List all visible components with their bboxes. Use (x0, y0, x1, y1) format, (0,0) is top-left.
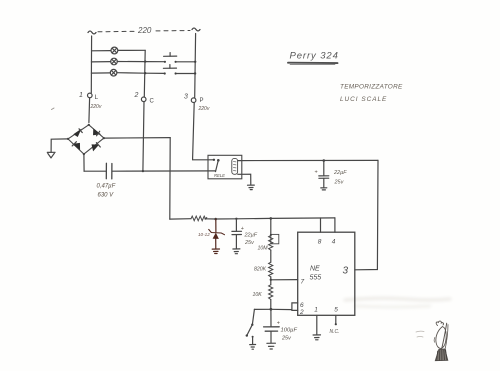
resistor R2 10M zigzag (269, 235, 273, 250)
lamp LP3 (110, 69, 117, 76)
wire middle rail (143, 50, 146, 96)
svg-text:+: + (277, 321, 280, 327)
bridge rectifier BR1 (67, 124, 105, 155)
wire C rail down (143, 102, 144, 171)
svg-text:P: P (200, 98, 204, 104)
junction dot cap 22uF right (323, 159, 326, 162)
svg-text:2: 2 (299, 309, 304, 316)
junction dot rail/divider (270, 217, 273, 220)
bracket pins 6-2 (292, 303, 298, 311)
svg-text:6: 6 (300, 302, 304, 309)
ground (pin1) (313, 334, 320, 336)
wire lamp row2 to button (145, 61, 164, 63)
wire P rail to relay (193, 103, 213, 160)
svg-text:0,47µF: 0,47µF (97, 184, 116, 190)
relay K1 box (208, 155, 242, 179)
svg-text:630 V: 630 V (98, 193, 115, 199)
wire dashed 220 line (98, 30, 136, 33)
wire right rail top (194, 34, 197, 98)
wire pin 1 to ground (316, 315, 318, 334)
svg-text:100µF: 100µF (281, 328, 298, 334)
capacitor C2 22uF lead (323, 161, 325, 176)
svg-text:2: 2 (134, 92, 139, 99)
wire cap to relay (112, 170, 215, 172)
svg-text:220v: 220v (198, 106, 210, 112)
trimmer rect (271, 234, 279, 243)
terminal 1 L (88, 93, 93, 98)
junction dot (194, 61, 196, 63)
terminal 3 P (191, 98, 196, 103)
junction dot (194, 72, 196, 74)
title underline (288, 62, 338, 64)
svg-text:22µF: 22µF (244, 233, 258, 239)
svg-text:10M: 10M (258, 246, 269, 252)
svg-text:+: + (315, 170, 318, 176)
svg-text:7: 7 (301, 279, 305, 286)
wire coil bottom to ground (238, 174, 251, 185)
svg-text:3: 3 (343, 266, 349, 277)
ground (C3) (233, 248, 240, 250)
faint pencil marks (416, 331, 424, 337)
wire drop pin8 (320, 218, 322, 232)
svg-text:3: 3 (184, 94, 188, 101)
capacitor C4 100uF (270, 309, 272, 326)
svg-text:RELE: RELE (214, 173, 225, 178)
lamp row 1 wires (92, 50, 111, 52)
IC U1 NE555 box (298, 232, 355, 315)
capacitor C3 22uF left (235, 219, 237, 231)
svg-text:220v: 220v (90, 104, 102, 110)
svg-text:8: 8 (318, 239, 322, 246)
svg-text:4: 4 (332, 239, 336, 246)
svg-text:TEMPORIZZATORE: TEMPORIZZATORE (340, 83, 403, 90)
diode D3 bottom-left (74, 144, 80, 149)
wire lamp row3 to button (145, 72, 163, 74)
svg-text:22µF: 22µF (333, 170, 347, 176)
ground (switch) (250, 344, 256, 346)
svg-text:25v: 25v (334, 180, 345, 186)
lamp LP2 (111, 58, 118, 65)
wire vertical supply drop (169, 138, 171, 220)
wire left rail top (90, 36, 92, 93)
diode D1 top-left (74, 130, 80, 136)
relay coil (232, 158, 238, 174)
ground (C2) (321, 187, 327, 189)
AC source tilde left (88, 31, 96, 34)
junction dot (144, 72, 146, 74)
wire bridge right to vertical (104, 137, 170, 140)
svg-text:5: 5 (334, 307, 338, 314)
doodle signature (434, 321, 448, 361)
svg-text:NE: NE (310, 266, 320, 273)
ground (relay) (248, 184, 255, 186)
divider rail: top segment (270, 218, 272, 235)
svg-text:555: 555 (310, 275, 322, 282)
wire button1 to right rail (177, 61, 195, 63)
resistor R4 10K zigzag (269, 285, 273, 300)
ground (zener) (212, 248, 219, 250)
svg-text:25v: 25v (244, 240, 255, 246)
relay contact dots (213, 159, 215, 161)
junction dot node C-rail (142, 170, 144, 172)
lamp row 2 wire (91, 61, 110, 63)
svg-text:1: 1 (314, 307, 318, 314)
junction dot zener (214, 218, 217, 221)
diode D4 bottom-right (92, 145, 98, 150)
wire drop pin4 (334, 218, 336, 232)
pushbutton S1 (164, 61, 166, 63)
junction dot (144, 60, 146, 62)
wire bottom junction left (254, 308, 271, 310)
ground (bridge minus) (47, 151, 55, 153)
resistor R3 820K zigzag (269, 262, 273, 277)
wire bridge bottom to cap (83, 154, 85, 171)
wire terminal L to bridge (88, 98, 91, 123)
svg-text:L: L (95, 94, 99, 101)
junction dot cap C3 (235, 218, 237, 220)
wire pin 5 stub (335, 315, 337, 323)
wire to pin 7 (271, 279, 298, 281)
svg-text:10-12: 10-12 (198, 232, 210, 237)
resistor R1 zigzag (191, 216, 207, 221)
wire bottom junction right to 6/2 bracket (271, 308, 292, 310)
capacitor C1 0.47uF (105, 163, 107, 178)
ground (C4) (267, 342, 276, 344)
wire bridge left to ground (51, 139, 68, 152)
wire button2 to right rail (177, 73, 195, 75)
svg-text:1: 1 (79, 92, 83, 99)
svg-text:25v: 25v (281, 336, 292, 342)
zener DZ1 (209, 219, 225, 254)
svg-text:C: C (150, 99, 155, 105)
svg-text:Perry 324: Perry 324 (290, 51, 339, 62)
wire pin3 out (355, 160, 378, 269)
svg-text:N.C.: N.C. (330, 329, 340, 335)
AC source tilde right (192, 28, 200, 31)
trigger switch S3 (253, 309, 255, 323)
svg-text:220: 220 (137, 26, 152, 35)
pushbutton S2 (164, 72, 166, 74)
relay lever (216, 160, 219, 171)
svg-text:10K: 10K (253, 292, 263, 298)
svg-text:+: + (241, 226, 244, 232)
terminal 2 C (141, 97, 146, 102)
svg-text:820K: 820K (254, 267, 267, 273)
svg-text:LUCI SCALE: LUCI SCALE (340, 96, 387, 103)
diode D2 top-right (94, 129, 100, 134)
lamp LP1 (111, 47, 118, 54)
paper smudge (345, 298, 450, 307)
junction dot pin7 tap (270, 279, 272, 281)
junction dot bottom (270, 308, 273, 311)
lamp row 3 wire (91, 72, 110, 74)
wire coil to pin3 riser (238, 159, 378, 161)
wire supply rail horizontal (170, 218, 191, 220)
